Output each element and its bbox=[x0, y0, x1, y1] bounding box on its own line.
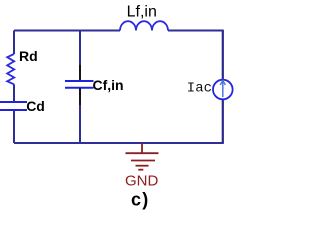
svg-text:Rd: Rd bbox=[19, 48, 38, 64]
svg-text:Lf,in: Lf,in bbox=[127, 3, 157, 20]
svg-text:Cf,in: Cf,in bbox=[93, 77, 124, 93]
svg-text:Cd: Cd bbox=[26, 98, 45, 114]
svg-text:c): c) bbox=[131, 190, 149, 210]
svg-text:GND: GND bbox=[125, 173, 159, 190]
svg-text:Iac: Iac bbox=[187, 81, 212, 97]
